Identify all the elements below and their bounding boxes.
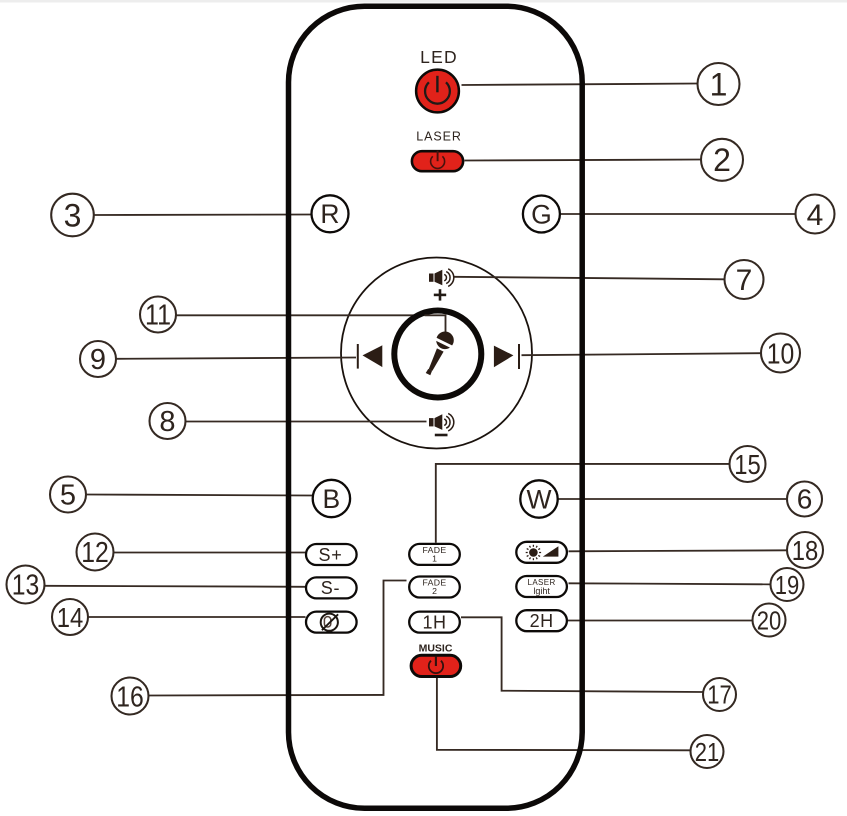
svg-text:LASER: LASER	[416, 130, 462, 144]
svg-text:9: 9	[90, 344, 106, 376]
svg-text:3: 3	[64, 197, 82, 233]
svg-text:1H: 1H	[422, 612, 446, 632]
svg-text:12: 12	[81, 537, 109, 569]
svg-text:lgiht: lgiht	[533, 586, 550, 596]
svg-text:15: 15	[734, 449, 761, 480]
svg-text:17: 17	[707, 680, 732, 710]
svg-text:21: 21	[695, 737, 720, 767]
svg-text:13: 13	[12, 570, 40, 602]
svg-text:10: 10	[767, 339, 795, 371]
svg-text:1: 1	[432, 554, 437, 564]
svg-text:20: 20	[757, 605, 782, 635]
svg-text:14: 14	[57, 602, 84, 633]
svg-text:18: 18	[792, 535, 819, 566]
svg-text:S+: S+	[318, 545, 342, 565]
svg-text:2: 2	[432, 586, 437, 596]
svg-text:MUSIC: MUSIC	[419, 643, 453, 655]
svg-text:LED: LED	[420, 47, 458, 67]
svg-text:1: 1	[710, 66, 728, 102]
svg-text:2: 2	[713, 142, 731, 178]
svg-text:G: G	[531, 199, 552, 229]
svg-text:8: 8	[159, 406, 175, 438]
svg-text:2H: 2H	[530, 611, 554, 631]
svg-text:7: 7	[736, 264, 753, 297]
svg-text:B: B	[323, 484, 341, 514]
svg-text:16: 16	[116, 681, 144, 713]
svg-text:4: 4	[807, 199, 824, 232]
svg-text:19: 19	[775, 570, 800, 600]
svg-text:11: 11	[145, 300, 171, 332]
svg-text:S-: S-	[321, 578, 341, 598]
svg-text:R: R	[320, 199, 339, 229]
svg-text:5: 5	[60, 480, 76, 512]
svg-text:W: W	[526, 484, 551, 514]
svg-text:6: 6	[797, 484, 813, 515]
